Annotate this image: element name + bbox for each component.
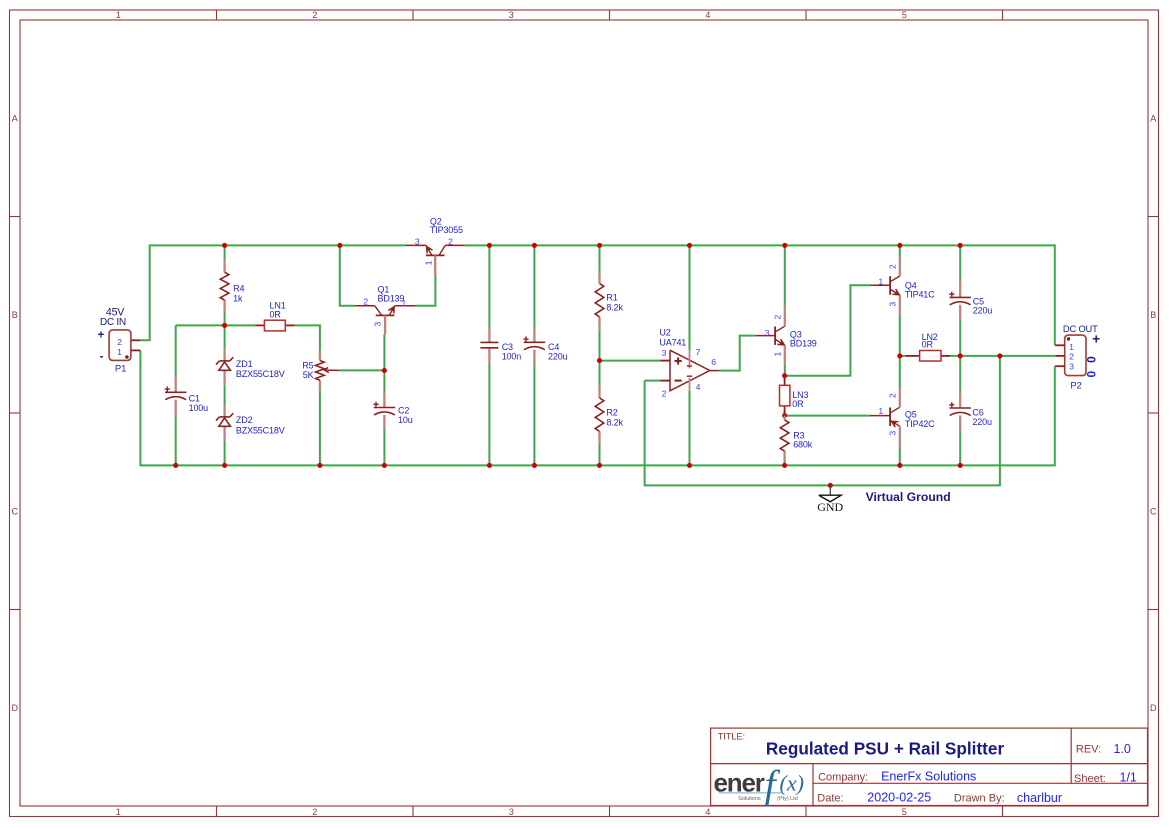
ground — [829, 487, 831, 495]
junction bottom rail x=534.4 — [532, 463, 537, 468]
junction top rail x=689.5 — [687, 243, 692, 248]
svg-text:UA741: UA741 — [659, 337, 686, 347]
svg-text:2: 2 — [448, 236, 453, 246]
wire virtual ground net — [645, 356, 1000, 486]
svg-text:C: C — [12, 506, 19, 516]
Q2 collector lead — [445, 244, 465, 246]
wire R1-R2 node — [599, 330, 601, 384]
U2 pin7 inner — [689, 350, 691, 368]
svg-text:BZX55C18V: BZX55C18V — [236, 369, 285, 379]
svg-text:3: 3 — [509, 807, 514, 817]
svg-text:P2: P2 — [1070, 380, 1081, 391]
potentiometer R5 — [319, 351, 321, 361]
svg-text:3: 3 — [888, 302, 898, 307]
capacitor C4 symbol — [523, 337, 545, 350]
Q5 base lead — [870, 415, 890, 417]
wire U2 pin7 — [689, 245, 691, 350]
svg-text:C3: C3 — [502, 342, 513, 352]
svg-text:3: 3 — [765, 328, 770, 338]
svg-text:3: 3 — [662, 348, 667, 358]
capacitor C1 — [175, 377, 177, 393]
Q5 emitter arrow — [892, 421, 899, 427]
svg-text:2: 2 — [117, 337, 122, 347]
capacitor C6 symbol — [949, 402, 971, 415]
resistor R1 — [598, 271, 600, 284]
svg-text:3: 3 — [1069, 362, 1074, 372]
U2 pin6 stub — [710, 370, 720, 372]
svg-text:0R: 0R — [792, 399, 804, 409]
wire Q4 emitter to mid node — [899, 315, 901, 356]
wire C2 bottom — [383, 430, 385, 466]
connector P2 — [1065, 335, 1086, 376]
junction Q1 base node — [382, 368, 387, 373]
svg-text:Virtual Ground: Virtual Ground — [866, 490, 951, 504]
capacitor C3 symbol — [480, 342, 498, 347]
logo underline — [719, 792, 782, 794]
capacitor C5 symbol — [949, 292, 971, 305]
capacitor C2 symbol — [373, 402, 395, 415]
Q4 emitter diagonal — [891, 290, 900, 296]
svg-text:4: 4 — [705, 807, 710, 817]
svg-text:0R: 0R — [922, 340, 934, 350]
svg-text:C6: C6 — [972, 407, 983, 417]
junction LN3/R3 node — [782, 413, 787, 418]
resistor R4 body — [220, 272, 229, 300]
svg-text:P1: P1 — [115, 364, 126, 375]
Q2 emitter arrow — [427, 247, 433, 254]
junction node R4/ZD1/LN1 — [222, 323, 227, 328]
wire LN3 top — [784, 376, 786, 381]
wire C4 bottom — [533, 366, 535, 465]
title block — [711, 728, 1148, 805]
svg-text:2: 2 — [773, 314, 783, 319]
wire C3 top — [488, 245, 490, 327]
svg-text:3: 3 — [415, 236, 420, 246]
capacitor C3 — [488, 327, 490, 342]
junction Q4/Q5 mid node — [897, 353, 902, 358]
junction top rail x=489.4 — [487, 243, 492, 248]
svg-text:6: 6 — [711, 357, 716, 367]
junction top rail x=339.8 — [337, 243, 342, 248]
wire LN1 to R5 — [295, 325, 320, 350]
wire top rail right to P2 pin1 — [465, 245, 1055, 345]
wire Q1 emitter to Q2 base — [415, 275, 435, 306]
svg-text:charlbur: charlbur — [1017, 791, 1062, 805]
junction bottom rail x=599.5 — [597, 463, 602, 468]
svg-text:220u: 220u — [973, 306, 993, 316]
junction top rail x=960.2 — [958, 243, 963, 248]
resistor LN3 — [784, 376, 786, 386]
svg-text:5: 5 — [902, 10, 907, 20]
junction bottom rail x=175.7 — [173, 463, 178, 468]
junction C5/C6 mid node — [958, 353, 963, 358]
svg-text:Company:: Company: — [818, 772, 868, 784]
wire Q1 base / C2 top — [383, 334, 385, 392]
Q4 base lead — [870, 284, 890, 286]
svg-text:4: 4 — [696, 382, 701, 392]
svg-text:C: C — [1150, 506, 1157, 516]
svg-text:R5: R5 — [302, 361, 313, 371]
Q2 emitter diagonal — [426, 245, 432, 254]
svg-text:2020-02-25: 2020-02-25 — [867, 791, 931, 805]
svg-text:ZD1: ZD1 — [236, 359, 253, 369]
svg-text:C1: C1 — [189, 394, 200, 404]
svg-text:Drawn By:: Drawn By: — [954, 793, 1005, 805]
svg-text:TIP42C: TIP42C — [905, 419, 935, 429]
junction top rail x=534.4 — [532, 243, 537, 248]
Q3 base lead — [755, 335, 775, 337]
R1 body — [595, 284, 604, 317]
svg-text:2: 2 — [1069, 351, 1074, 361]
U2 plus symbol — [675, 360, 682, 362]
Q1 emitter lead — [395, 305, 415, 307]
capacitor C4 — [533, 327, 535, 342]
capacitor C1 symbol — [165, 387, 187, 400]
wire R5 bottom — [319, 390, 321, 466]
svg-text:A: A — [1150, 113, 1156, 123]
wire top rail to Q1 collector — [340, 245, 355, 305]
junction Q3 emitter node — [782, 373, 787, 378]
capacitor C6 — [959, 391, 961, 408]
wire node A to LN1 — [176, 324, 256, 326]
Q4 collector lead — [899, 258, 901, 276]
svg-text:220u: 220u — [548, 351, 568, 361]
junction top rail x=784.8 — [782, 243, 787, 248]
svg-text:2: 2 — [662, 389, 667, 399]
Q4 emitter arrow — [892, 289, 899, 295]
svg-text:3: 3 — [373, 322, 383, 327]
svg-text:5K: 5K — [303, 370, 314, 380]
wire bottom rail — [140, 350, 1054, 465]
wire R1 top — [599, 245, 601, 270]
svg-text:TIP41C: TIP41C — [905, 290, 935, 300]
wire LN3 bottom — [784, 411, 786, 416]
wire ZD2 bottom — [224, 441, 226, 466]
Q5 emitter lead — [899, 426, 901, 446]
junction bottom rail x=960.2 — [958, 463, 963, 468]
svg-text:(x): (x) — [780, 771, 804, 796]
svg-text:B: B — [12, 310, 18, 320]
svg-text:1: 1 — [1069, 342, 1074, 352]
wire ZD1-ZD2 — [224, 385, 226, 406]
Q3 emitter diagonal — [776, 340, 785, 346]
svg-text:2: 2 — [888, 393, 898, 398]
svg-text:100n: 100n — [502, 351, 522, 361]
Q3 base bar — [774, 326, 776, 345]
svg-text:Solutions: Solutions — [738, 796, 761, 802]
wire U2 out to Q3 base — [719, 336, 755, 371]
wire U2 pin2 — [645, 380, 661, 382]
resistor R4 — [223, 259, 225, 273]
R5 wiper line — [328, 369, 339, 371]
svg-text:BZX55C18V: BZX55C18V — [236, 425, 285, 435]
wire R2 bottom — [599, 445, 601, 465]
wire node to U2 pin3 — [600, 360, 661, 362]
svg-text:Regulated PSU + Rail Splitter: Regulated PSU + Rail Splitter — [766, 738, 1005, 758]
svg-text:0: 0 — [1085, 370, 1099, 377]
svg-text:BD139: BD139 — [378, 294, 405, 304]
svg-text:R1: R1 — [606, 293, 617, 303]
svg-text:BD139: BD139 — [790, 339, 817, 349]
svg-text:1.0: 1.0 — [1114, 742, 1131, 756]
svg-text:10u: 10u — [398, 415, 413, 425]
svg-text:C2: C2 — [398, 405, 409, 415]
svg-text:GND: GND — [817, 500, 843, 514]
zener ZD2 — [223, 406, 225, 417]
wire R4 bottom — [224, 312, 226, 325]
R5 body — [316, 361, 325, 381]
Q1 emitter arrow — [388, 307, 394, 314]
svg-text:100u: 100u — [189, 403, 209, 413]
junction R1/R2 divider node — [597, 358, 602, 363]
svg-text:2: 2 — [312, 807, 317, 817]
Q3 collector diagonal — [776, 326, 785, 332]
svg-text:5: 5 — [902, 807, 907, 817]
connector P1 — [109, 330, 131, 361]
junction virtual ground riser — [997, 353, 1002, 358]
wire P1 pin2 to top rail — [140, 245, 405, 340]
capacitor C5 — [959, 281, 961, 298]
wire LN2 to P2 pin2 — [950, 355, 1055, 357]
svg-text:-: - — [100, 351, 104, 363]
wire C5 bottom — [959, 320, 961, 356]
svg-text:0R: 0R — [270, 310, 282, 320]
wire C6 bottom — [959, 431, 961, 466]
junction top rail x=899.8 — [897, 243, 902, 248]
Q5 collector lead — [899, 388, 901, 407]
Q4 collector diagonal — [891, 276, 900, 282]
svg-text:Date:: Date: — [817, 793, 843, 805]
junction bottom rail x=384.4 — [382, 463, 387, 468]
svg-text:D: D — [12, 703, 19, 713]
wire Q3 emitter — [784, 365, 786, 376]
svg-text:1: 1 — [878, 277, 883, 287]
Q1 base stem — [384, 315, 386, 334]
zener ZD2 symbol — [216, 413, 233, 426]
svg-text:1: 1 — [773, 351, 783, 356]
U2 minus symbol — [675, 380, 682, 382]
svg-text:U2: U2 — [659, 328, 670, 338]
resistor LN1 — [256, 324, 265, 326]
R5 wiper arrow — [324, 368, 329, 373]
wire Q4 collector — [899, 245, 901, 257]
svg-text:A: A — [12, 113, 18, 123]
zener ZD1 symbol — [216, 357, 233, 370]
U2 pin7 plus tick — [687, 365, 692, 367]
Q1 collector lead — [355, 305, 375, 307]
wire C5 top — [959, 245, 961, 280]
wire top rail to Q3 collector — [784, 245, 786, 306]
junction top rail x=599.5 — [597, 243, 602, 248]
wire C3 bottom — [488, 364, 490, 466]
R2 body — [595, 398, 604, 431]
capacitor C2 — [383, 392, 385, 408]
Q2 base bar — [426, 254, 445, 256]
U2 pin4 minus tick — [687, 375, 692, 377]
wire U2 pin4 — [689, 391, 691, 466]
svg-text:EnerFx Solutions: EnerFx Solutions — [881, 770, 976, 784]
svg-text:D: D — [1150, 703, 1157, 713]
wire R3 bottom — [784, 461, 786, 466]
wire mid node to LN2 — [900, 355, 906, 357]
junction top rail x=224.6 — [222, 243, 227, 248]
Q3 emitter lead — [784, 345, 786, 364]
svg-text:1: 1 — [116, 10, 121, 20]
svg-text:2: 2 — [363, 296, 368, 306]
junction GND — [828, 483, 833, 488]
svg-text:(Pty) Ltd: (Pty) Ltd — [777, 796, 798, 802]
svg-text:8.2k: 8.2k — [606, 417, 623, 427]
resistor LN2 — [906, 355, 920, 357]
svg-text:+: + — [1092, 332, 1100, 347]
resistor R2 — [598, 385, 600, 398]
Q2 emitter lead — [406, 244, 426, 246]
svg-text:1: 1 — [424, 260, 434, 265]
svg-text:3: 3 — [509, 10, 514, 20]
svg-text:C4: C4 — [548, 342, 559, 352]
svg-text:Sheet:: Sheet: — [1074, 773, 1106, 785]
svg-text:+: + — [98, 330, 105, 342]
wire C6 top — [959, 356, 961, 391]
svg-text:680k: 680k — [793, 440, 813, 450]
junction bottom rail x=319.9 — [317, 463, 322, 468]
svg-text:1/1: 1/1 — [1120, 770, 1137, 784]
junction bottom rail x=224.6 — [222, 463, 227, 468]
svg-text:1: 1 — [116, 807, 121, 817]
Q5 collector diagonal — [891, 407, 900, 413]
wire R5 wiper to node — [339, 369, 384, 371]
svg-text:B: B — [1150, 310, 1156, 320]
wire C1 bottom — [175, 417, 177, 466]
wire mid node to Q5 collector — [899, 356, 901, 388]
svg-text:ZD2: ZD2 — [236, 415, 253, 425]
svg-text:8.2k: 8.2k — [606, 303, 623, 313]
svg-text:TIP3055: TIP3055 — [430, 225, 463, 235]
svg-text:220u: 220u — [972, 417, 992, 427]
wire C1 top — [175, 325, 177, 376]
svg-text:2: 2 — [312, 10, 317, 20]
Q2 base stem — [434, 255, 436, 274]
svg-text:R2: R2 — [606, 407, 617, 417]
U2 triangle — [670, 350, 710, 391]
resistor R3 — [783, 416, 785, 420]
Q2 collector diagonal — [439, 245, 445, 254]
svg-text:1: 1 — [878, 406, 883, 416]
wire node to Q5 base — [785, 415, 871, 417]
junction bottom rail x=689.5 — [687, 463, 692, 468]
Q1 emitter diagonal — [389, 306, 394, 315]
svg-text:1: 1 — [117, 347, 122, 357]
Q3 emitter arrow — [777, 339, 784, 345]
svg-text:DC IN: DC IN — [100, 317, 126, 328]
wire Q3 emitter to Q4 base — [785, 285, 871, 375]
svg-text:TITLE:: TITLE: — [718, 730, 745, 741]
U2 pin3 stub — [660, 360, 670, 362]
zener ZD1 — [223, 349, 225, 361]
svg-text:R4: R4 — [233, 284, 244, 294]
wire C4 top — [533, 245, 535, 327]
wire ZD1 top — [224, 325, 226, 349]
junction bottom rail x=489.4 — [487, 463, 492, 468]
Q3 collector lead — [784, 306, 786, 326]
svg-text:7: 7 — [696, 347, 701, 357]
svg-text:4: 4 — [705, 10, 710, 20]
svg-text:3: 3 — [888, 431, 898, 436]
svg-text:1k: 1k — [233, 293, 243, 303]
U2 pin2 stub — [660, 380, 670, 382]
svg-text:2: 2 — [888, 264, 898, 269]
Q5 emitter diagonal — [891, 421, 900, 427]
wire Q5 emitter to bottom rail — [899, 447, 901, 466]
wire R4 top — [224, 245, 226, 258]
R3 body — [780, 420, 789, 451]
Q1 base bar — [376, 314, 395, 316]
Q5 base bar — [889, 407, 891, 426]
U2 pin4 inner — [689, 378, 691, 391]
svg-text:REV:: REV: — [1076, 743, 1101, 755]
Q4 base bar — [889, 276, 891, 295]
junction bottom rail x=899.8 — [897, 463, 902, 468]
junction bottom rail x=784.6 — [782, 463, 787, 468]
Q4 emitter lead — [899, 295, 901, 315]
svg-text:0: 0 — [1085, 356, 1099, 363]
